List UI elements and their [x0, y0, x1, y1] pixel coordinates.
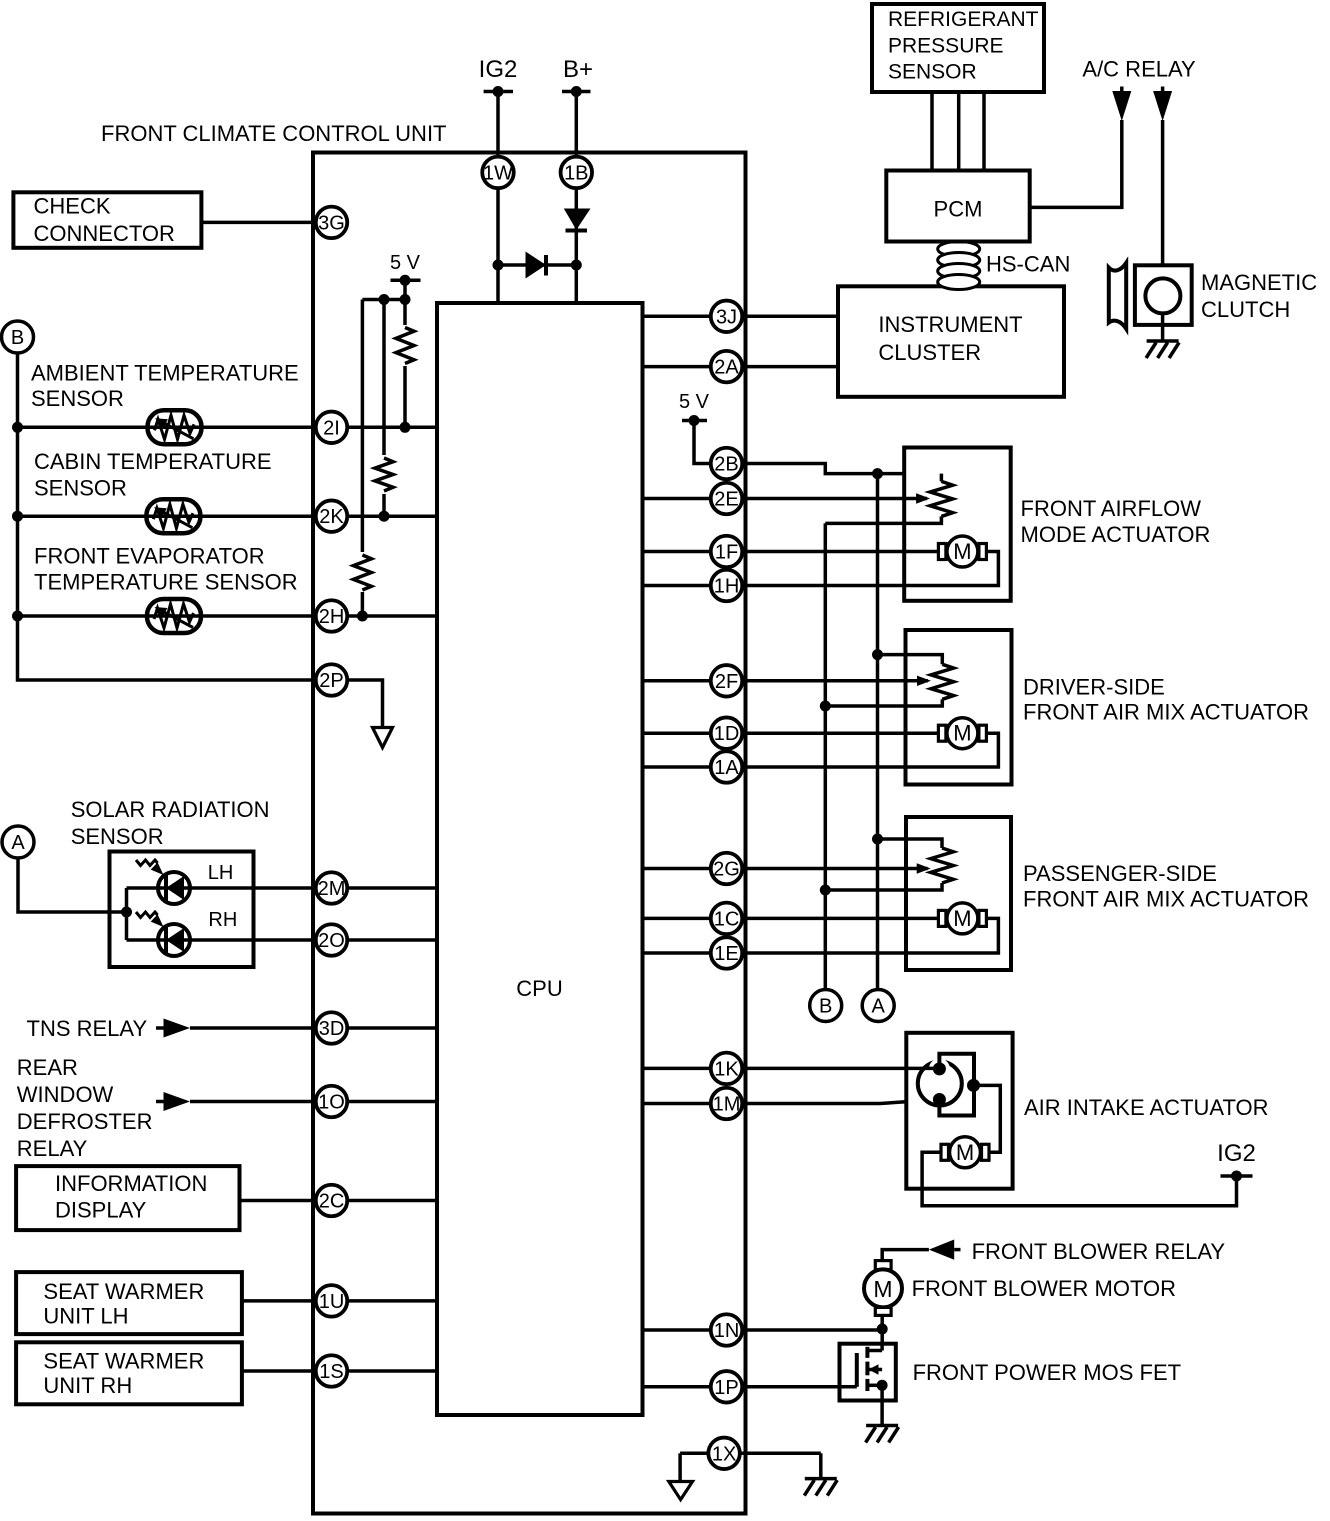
wire FET source to ground [880, 1401, 884, 1426]
resistor R3 [348, 552, 376, 592]
svg-text:2I: 2I [323, 417, 340, 439]
front climate control unit box [313, 153, 746, 1514]
svg-text:CLUTCH: CLUTCH [1201, 297, 1290, 322]
box PCM [886, 171, 1029, 242]
svg-text:B+: B+ [563, 56, 593, 83]
svg-text:SEAT WARMER: SEAT WARMER [43, 1348, 204, 1373]
svg-text:SENSOR: SENSOR [71, 824, 164, 849]
pin 1S [316, 1355, 348, 1387]
5V supply terminal 2 [679, 391, 710, 426]
pin 3D [316, 1012, 348, 1044]
svg-text:1D: 1D [714, 723, 740, 745]
wire seat LH to 1U [242, 1299, 332, 1303]
svg-text:FRONT POWER MOS FET: FRONT POWER MOS FET [913, 1360, 1181, 1385]
svg-text:INSTRUMENT: INSTRUMENT [878, 312, 1022, 337]
wire relay2 to magnetic clutch [1161, 120, 1165, 280]
wire pin to CPU [332, 1199, 438, 1203]
junction node [872, 649, 883, 660]
junction node [872, 468, 883, 479]
svg-text:2O: 2O [318, 930, 345, 952]
pin 2P [316, 664, 348, 696]
svg-text:1B: 1B [564, 162, 588, 184]
svg-text:FRONT EVAPORATOR: FRONT EVAPORATOR [34, 544, 265, 569]
pin 1P [711, 1371, 743, 1403]
wire 1M line [643, 1100, 940, 1104]
wire motor return loop [643, 918, 999, 953]
svg-text:IG2: IG2 [479, 56, 518, 83]
box CHECK CONNECTOR [13, 192, 201, 248]
junction node [12, 611, 23, 622]
wire 1N line [643, 1328, 883, 1332]
svg-text:A: A [11, 832, 25, 854]
svg-text:2F: 2F [715, 671, 738, 693]
wire 1N to FET drain [880, 1330, 884, 1351]
pin 2G [711, 853, 743, 885]
pin 2C [316, 1185, 348, 1217]
wire tie 1W-1B [498, 263, 576, 267]
svg-text:SOLAR RADIATION: SOLAR RADIATION [71, 797, 270, 822]
junction node [872, 834, 883, 845]
CPU box [437, 303, 643, 1415]
wire pot top lead [940, 474, 944, 482]
photodiode RH [158, 924, 190, 956]
svg-text:TNS RELAY: TNS RELAY [27, 1016, 148, 1041]
svg-text:2P: 2P [319, 670, 343, 692]
wire motor to 1N node [880, 1315, 884, 1330]
wire motor return loop [643, 552, 999, 586]
wire 1X line [680, 1452, 821, 1456]
node A circle (feeder) [862, 990, 894, 1022]
motor M [938, 544, 946, 560]
svg-text:DEFROSTER: DEFROSTER [17, 1109, 153, 1134]
pin 1H [711, 570, 743, 602]
svg-text:CPU: CPU [516, 976, 562, 1001]
wire 2M line [127, 886, 438, 890]
svg-text:RH: RH [208, 909, 237, 931]
svg-text:1F: 1F [715, 542, 738, 564]
wire motor feed [643, 731, 940, 735]
wire defroster to 1O [190, 1100, 332, 1104]
svg-text:2M: 2M [318, 878, 346, 900]
svg-text:CHECK: CHECK [34, 194, 111, 219]
wire sensor lead 3 [982, 92, 986, 171]
svg-text:UNIT LH: UNIT LH [43, 1304, 128, 1329]
wire seat RH to 1S [242, 1369, 332, 1373]
svg-text:FRONT AIR MIX ACTUATOR: FRONT AIR MIX ACTUATOR [1023, 886, 1309, 911]
arrow A/C relay 2 (down) [1153, 87, 1172, 122]
resistor R1 [391, 325, 419, 366]
junction node [820, 885, 831, 896]
junction node 1N [877, 1324, 888, 1335]
svg-text:HS-CAN: HS-CAN [986, 252, 1070, 277]
wire 1X right drop [819, 1453, 823, 1478]
chassis ground (1X) [805, 1477, 837, 1481]
junction node [493, 260, 504, 271]
ground (signal) 1X [669, 1482, 693, 1500]
svg-text:MAGNETIC: MAGNETIC [1201, 270, 1317, 295]
pin 2H [316, 600, 348, 632]
svg-text:5 V: 5 V [390, 252, 421, 274]
pin 1X [708, 1438, 740, 1470]
chassis ground (magnetic clutch) [1147, 339, 1179, 343]
wire pot bottom lead [825, 883, 942, 890]
junction node R2/2K [379, 511, 390, 522]
5V supply terminal [390, 252, 421, 286]
wire TNS to 3D [190, 1026, 332, 1030]
svg-text:1K: 1K [714, 1058, 739, 1080]
pin 1E [711, 937, 743, 969]
svg-text:1S: 1S [319, 1361, 343, 1383]
junction node [121, 907, 132, 918]
actuator box [906, 817, 1011, 970]
svg-text:3D: 3D [319, 1018, 345, 1040]
motor M air intake [941, 1144, 949, 1160]
junction node [12, 511, 23, 522]
svg-text:SENSOR: SENSOR [888, 61, 977, 84]
wire pin to CPU [332, 1026, 438, 1030]
IG2 terminal (air intake) [1217, 1140, 1256, 1182]
wire branch to 2H [361, 300, 365, 617]
box INFORMATION DISPLAY [16, 1166, 239, 1230]
svg-text:CONNECTOR: CONNECTOR [34, 221, 175, 246]
wire B bus vertical + to 2P [18, 353, 332, 680]
svg-text:FRONT BLOWER RELAY: FRONT BLOWER RELAY [972, 1239, 1226, 1264]
wire relay to motor [882, 1250, 929, 1261]
wire rotor to motor [974, 1085, 1001, 1152]
wire motor feed [643, 550, 940, 554]
svg-text:SENSOR: SENSOR [31, 386, 124, 411]
wire branch to 2K [382, 300, 386, 517]
svg-text:5 V: 5 V [679, 391, 710, 413]
svg-text:1W: 1W [483, 162, 513, 184]
front blower motor [864, 1261, 902, 1316]
svg-text:FRONT AIR MIX ACTUATOR: FRONT AIR MIX ACTUATOR [1023, 700, 1309, 725]
svg-text:CLUSTER: CLUSTER [878, 340, 981, 365]
potentiometer [930, 481, 953, 516]
wire 2H sensor line [18, 614, 438, 618]
wire pot top feed [878, 839, 943, 848]
svg-text:REFRIGERANT: REFRIGERANT [888, 8, 1039, 31]
svg-text:WINDOW: WINDOW [17, 1082, 114, 1107]
wire 1K line [643, 1067, 940, 1071]
arrow TNS relay input [156, 1026, 165, 1030]
svg-text:FRONT AIRFLOW: FRONT AIRFLOW [1021, 496, 1202, 521]
wire pot bottom lead [825, 516, 941, 523]
wire wiper arrow [643, 497, 927, 501]
actuator box [904, 448, 1011, 601]
pin 1O [316, 1086, 348, 1118]
svg-text:3J: 3J [716, 306, 737, 328]
IG2 terminal [479, 56, 518, 97]
svg-text:1P: 1P [714, 1377, 738, 1399]
svg-text:1H: 1H [714, 576, 740, 598]
wire info display to 2C [240, 1199, 332, 1203]
thermistor cabin [146, 499, 200, 533]
pin 1N [711, 1314, 743, 1346]
wire motor return loop [643, 733, 999, 767]
svg-text:MODE ACTUATOR: MODE ACTUATOR [1021, 522, 1211, 547]
svg-text:M: M [956, 1140, 974, 1165]
chassis ground (FET) [866, 1424, 898, 1428]
svg-text:M: M [953, 906, 971, 931]
wire pin to CPU [332, 1100, 438, 1104]
box solar radiation sensor [110, 852, 254, 968]
svg-text:TEMPERATURE SENSOR: TEMPERATURE SENSOR [34, 569, 298, 594]
pin 2I [316, 412, 348, 444]
pin 1U [316, 1285, 348, 1317]
node A circle [2, 826, 34, 858]
pin 2O [316, 924, 348, 956]
air intake rotor circle [918, 1062, 962, 1106]
wire pot bottom lead [825, 699, 942, 706]
air intake switch contact path [939, 1054, 974, 1116]
svg-text:IG2: IG2 [1217, 1140, 1256, 1167]
box SEAT WARMER UNIT RH [16, 1342, 242, 1404]
photodiode LH [158, 872, 190, 904]
svg-text:1A: 1A [714, 757, 739, 779]
wire feeder A (x877.5) [876, 474, 880, 989]
pin 1D [711, 717, 743, 749]
diode D2 pointing right [526, 252, 547, 279]
junction node R3/2H [357, 611, 368, 622]
svg-text:1N: 1N [714, 1320, 740, 1342]
junction node [820, 701, 831, 712]
wire motor feed [643, 917, 940, 921]
svg-text:FRONT CLIMATE CONTROL UNIT: FRONT CLIMATE CONTROL UNIT [101, 121, 447, 146]
contact dot right [967, 1079, 980, 1092]
svg-text:1U: 1U [319, 1291, 345, 1313]
wire 1W vertical [496, 92, 500, 304]
svg-text:PCM: PCM [934, 197, 983, 222]
svg-text:SENSOR: SENSOR [34, 475, 127, 500]
svg-text:2A: 2A [714, 357, 739, 379]
svg-text:1E: 1E [714, 943, 738, 965]
HS-CAN coil [938, 242, 980, 290]
pin 1M [711, 1088, 743, 1120]
svg-text:M: M [953, 539, 971, 564]
contact halo [929, 1058, 950, 1079]
svg-text:1O: 1O [318, 1092, 345, 1114]
svg-text:B: B [11, 327, 24, 349]
wire rail header [362, 298, 405, 302]
svg-text:3G: 3G [318, 212, 345, 234]
svg-text:UNIT RH: UNIT RH [43, 1373, 132, 1398]
junction node [571, 260, 582, 271]
wire 1P to gate [643, 1385, 857, 1389]
wire feeder B (x825.3) [824, 523, 828, 988]
svg-text:DRIVER-SIDE: DRIVER-SIDE [1023, 674, 1165, 699]
pin 2K [316, 500, 348, 532]
junction node [379, 294, 390, 305]
pin 2M [316, 872, 348, 904]
svg-text:A/C RELAY: A/C RELAY [1082, 56, 1196, 81]
contact dot bottom [933, 1093, 946, 1106]
svg-text:RELAY: RELAY [17, 1136, 88, 1161]
motor M [938, 910, 946, 926]
junction node R1/2I [400, 422, 411, 433]
svg-text:REAR: REAR [17, 1055, 78, 1080]
wire sensor lead 1 [930, 92, 934, 171]
wire pin to CPU [332, 1369, 438, 1373]
pin 2A [711, 351, 743, 383]
wire check connector to 3G [201, 221, 331, 225]
pin 3J [711, 301, 743, 333]
svg-text:1M: 1M [713, 1094, 741, 1116]
junction node [400, 294, 411, 305]
svg-text:B: B [819, 996, 832, 1018]
wire clutch to ground [1161, 314, 1165, 341]
arrow A/C relay 1 (down) [1112, 87, 1131, 122]
ground (signal) at 2P [373, 728, 393, 748]
svg-text:2G: 2G [713, 859, 740, 881]
potentiometer [931, 848, 954, 883]
motor M [938, 725, 946, 741]
svg-text:2C: 2C [319, 1191, 345, 1213]
pin 1C [711, 903, 743, 935]
node B circle [2, 321, 34, 353]
svg-text:INFORMATION: INFORMATION [55, 1171, 207, 1196]
pin 1B [561, 157, 593, 189]
pin 1F [711, 536, 743, 568]
svg-text:M: M [953, 721, 971, 746]
wire wiper arrow [643, 679, 928, 683]
arrow defroster relay input [156, 1100, 165, 1104]
AIR INTAKE ACTUATOR box [906, 1033, 1012, 1189]
svg-text:AIR INTAKE ACTUATOR: AIR INTAKE ACTUATOR [1024, 1095, 1268, 1120]
thermistor evaporator [147, 599, 201, 633]
svg-text:CABIN TEMPERATURE: CABIN TEMPERATURE [34, 449, 272, 474]
wire 2B feed with step [727, 464, 942, 474]
svg-text:FRONT BLOWER MOTOR: FRONT BLOWER MOTOR [912, 1276, 1176, 1301]
svg-text:PRESSURE: PRESSURE [888, 34, 1004, 57]
svg-text:2H: 2H [319, 606, 345, 628]
pin 3G [316, 207, 348, 239]
svg-text:1X: 1X [712, 1443, 736, 1465]
box REFRIGERANT PRESSURE SENSOR [872, 4, 1044, 92]
box INSTRUMENT CLUSTER [838, 286, 1064, 397]
wire pin to CPU [332, 1299, 438, 1303]
svg-text:2K: 2K [319, 506, 344, 528]
wire motor to IG2 [922, 1152, 1236, 1205]
magnetic clutch body [1135, 265, 1192, 325]
junction node [12, 422, 23, 433]
pin 1A [711, 751, 743, 783]
pin 2F [711, 665, 743, 697]
pin 1W [482, 157, 514, 189]
diode D1 pointing down [564, 209, 591, 231]
wire 2P to ground [332, 680, 383, 728]
wire 2O line [127, 938, 438, 942]
wire 1B vertical [575, 92, 579, 304]
wire PCM to A/C relay [1030, 120, 1122, 207]
svg-text:PASSENGER-SIDE: PASSENGER-SIDE [1023, 861, 1217, 886]
resistor R2 [370, 455, 398, 494]
svg-text:AMBIENT TEMPERATURE: AMBIENT TEMPERATURE [31, 361, 299, 386]
wire 2A to cluster [643, 365, 839, 369]
FRONT POWER MOS FET [840, 1344, 896, 1401]
svg-text:SEAT WARMER: SEAT WARMER [43, 1279, 204, 1304]
pin 2E [711, 483, 743, 515]
svg-text:2E: 2E [714, 489, 738, 511]
wire 2K sensor line [18, 514, 438, 518]
wire 5V rail down [403, 280, 407, 427]
contact dot top [933, 1062, 946, 1075]
wire 1K into rect [906, 1067, 939, 1071]
svg-text:1C: 1C [714, 908, 740, 930]
pin 1K [711, 1053, 743, 1085]
box SEAT WARMER UNIT LH [16, 1272, 242, 1334]
wire 1X left drop [678, 1453, 682, 1481]
wire 3J to cluster [643, 315, 839, 319]
svg-text:M: M [873, 1276, 892, 1302]
actuator box [906, 630, 1012, 785]
wire LH-RH tie [125, 888, 129, 940]
svg-text:DISPLAY: DISPLAY [55, 1198, 147, 1223]
wire pot top feed [878, 655, 943, 665]
magnetic clutch pulley [1109, 263, 1126, 329]
svg-text:2B: 2B [714, 454, 738, 476]
thermistor ambient [148, 410, 202, 444]
wire sensor lead 2 [957, 92, 961, 171]
potentiometer [931, 664, 954, 699]
svg-text:LH: LH [208, 862, 234, 884]
wire wiper arrow [643, 867, 928, 871]
pin 2B [711, 448, 743, 480]
wire 5V to 2B [694, 421, 727, 464]
node B circle (feeder) [810, 990, 842, 1022]
wire 2I sensor line [18, 426, 438, 430]
B+ terminal [562, 56, 593, 97]
svg-text:A: A [872, 996, 886, 1018]
arrow FRONT BLOWER RELAY (left) [929, 1240, 961, 1260]
wire A to sensor [18, 858, 127, 912]
